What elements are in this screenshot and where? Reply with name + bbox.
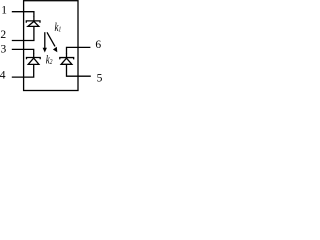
svg-text:k1: k1 <box>55 21 62 35</box>
svg-text:3: 3 <box>1 44 7 56</box>
wire pin3 <box>12 49 34 53</box>
arrow k2 (diagonal) <box>47 32 57 52</box>
wire pin6 <box>67 47 91 53</box>
svg-text:4: 4 <box>0 70 6 82</box>
wire pin5 <box>67 64 91 76</box>
component box U1 <box>24 1 78 91</box>
wire pin2 <box>12 26 34 40</box>
diode D2 (pins 3-4) <box>27 53 41 64</box>
diode D3 (output, pins 6-5) <box>60 53 74 64</box>
wire pin4 <box>12 64 34 77</box>
diode D1 (pins 1-2) <box>26 16 40 26</box>
svg-text:1: 1 <box>1 4 7 16</box>
svg-text:5: 5 <box>97 73 102 85</box>
wire pin1 <box>12 12 34 17</box>
arrow k1 (vertical) <box>43 32 47 52</box>
svg-text:6: 6 <box>95 39 101 51</box>
svg-text:k2: k2 <box>46 53 53 67</box>
svg-text:2: 2 <box>0 29 6 41</box>
